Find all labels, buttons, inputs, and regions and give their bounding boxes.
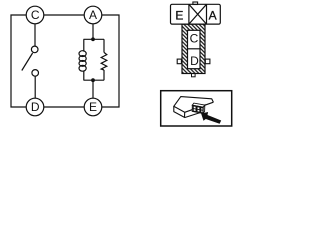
svg-text:E: E: [89, 100, 97, 114]
svg-text:C: C: [31, 8, 40, 22]
svg-text:A: A: [209, 8, 217, 22]
svg-text:E: E: [175, 8, 183, 22]
svg-text:C: C: [190, 32, 199, 46]
svg-text:D: D: [190, 54, 199, 68]
svg-text:D: D: [31, 100, 40, 114]
svg-text:A: A: [89, 8, 97, 22]
